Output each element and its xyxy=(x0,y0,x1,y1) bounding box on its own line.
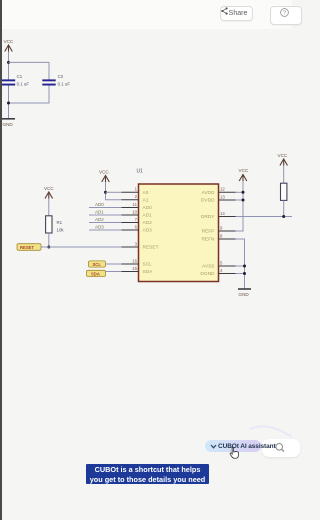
node junction DGND xyxy=(243,272,246,275)
wire REFN down to ground rail xyxy=(236,239,245,289)
node junction DVDD xyxy=(242,199,245,202)
wire R2 to DRDY net xyxy=(283,200,285,216)
net flag SCL xyxy=(89,261,106,267)
wire VCC to R2 xyxy=(283,166,285,184)
net flag SDA xyxy=(87,270,106,276)
pin 2 A1 xyxy=(122,194,149,203)
wire C2 bottom to rail xyxy=(9,86,50,104)
power flag VCC (R1) xyxy=(44,186,54,199)
pin 10 AD1 xyxy=(122,209,153,218)
share button xyxy=(220,6,253,22)
net flag RESET xyxy=(17,244,41,251)
power flag VCC (decoupling rail) xyxy=(4,39,14,52)
wire AVSS to rail xyxy=(236,265,245,267)
wire DRDY net xyxy=(236,216,293,218)
node junction at VCC branch xyxy=(7,61,10,64)
pin 14 DRDY xyxy=(201,211,236,220)
AI assistant pill xyxy=(205,440,261,452)
help button xyxy=(270,6,302,25)
wire DGND to rail xyxy=(236,273,245,275)
left screen edge xyxy=(0,0,2,520)
wire DVDD to rail xyxy=(236,199,244,201)
pin 8 REFN xyxy=(201,233,235,242)
wire VCC rail down to REFP xyxy=(236,181,244,231)
node junction AVSS xyxy=(243,265,246,268)
subtitle caption xyxy=(86,464,209,484)
power flag VCC (R2) xyxy=(278,153,288,166)
power flag VCC (AVDD/DVDD/REFP rail) xyxy=(239,168,249,181)
pin 3 RESET xyxy=(122,241,159,250)
pin 15 SDA xyxy=(122,266,154,275)
power flag VCC (A0/A1) xyxy=(99,170,109,183)
pin 13 DVDD xyxy=(201,194,236,203)
pin 11 AD0 xyxy=(122,202,153,211)
node junction AVDD xyxy=(242,191,245,194)
search box with magnifier xyxy=(262,439,300,457)
hand cursor xyxy=(228,446,241,461)
pin 16 SCL xyxy=(122,258,153,267)
pin 5 AVSS xyxy=(202,260,235,269)
op chip U1 xyxy=(137,169,219,282)
pin 12 AVDD xyxy=(202,187,236,196)
pin 1 A0 xyxy=(122,187,149,196)
net label AD3 wire xyxy=(89,225,122,231)
wire RESET to chip xyxy=(41,246,122,248)
wire SDA to chip xyxy=(106,271,122,273)
pin 4 DGND xyxy=(200,268,235,277)
pin 7 AD2 xyxy=(122,217,153,226)
wire AVDD to rail xyxy=(236,191,244,193)
node junction DRDY/R2 xyxy=(282,215,285,218)
resistor R1 10k xyxy=(46,216,65,233)
net label AD1 wire xyxy=(89,210,122,216)
resistor R2 xyxy=(281,183,287,200)
wire R1 to RESET net xyxy=(48,233,50,247)
ground GND (decoupling) xyxy=(2,119,15,127)
wire VCC to C1 top xyxy=(8,52,10,80)
pin 6 AD3 xyxy=(122,224,153,233)
pin 9 REFP xyxy=(202,225,236,234)
node junction to A0 xyxy=(104,191,107,194)
wire C1 bottom to GND xyxy=(8,86,10,119)
wire branch to C2 xyxy=(9,62,50,79)
wire VCC down to A1 row xyxy=(106,182,122,200)
ground GND (right rail) xyxy=(238,289,251,297)
wire SCL to chip xyxy=(106,263,122,265)
wire to A0 xyxy=(106,191,122,193)
net label AD2 wire xyxy=(89,217,122,223)
capacitor C1 xyxy=(2,74,30,87)
net label AD0 wire xyxy=(89,202,122,208)
node junction RESET/R1 xyxy=(47,246,50,249)
capacitor C2 xyxy=(42,74,70,87)
wire VCC to R1 xyxy=(48,199,50,216)
node junction at GND branch xyxy=(7,102,10,105)
